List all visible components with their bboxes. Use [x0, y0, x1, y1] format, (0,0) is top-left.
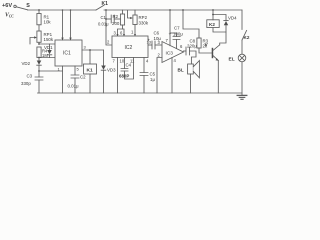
svg-text:10k: 10k [44, 20, 52, 25]
pin 5 label IC1 [77, 67, 80, 72]
wire to relay K1 [89, 50, 91, 64]
svg-text:+: + [169, 32, 172, 37]
wire rail to IC1 pin4 [62, 10, 64, 40]
pin arrow IC1 top right [69, 38, 72, 40]
svg-text:4: 4 [146, 59, 149, 64]
resistor R4 1M [37, 47, 41, 58]
IC2 box [112, 36, 148, 58]
pin 2 label [107, 40, 110, 45]
pin arrow IC2 pin1 [134, 34, 136, 36]
wire IC1 pin5 down [74, 66, 76, 75]
wire K1 to ground rail [89, 74, 91, 93]
battery terminal [14, 5, 16, 7]
svg-text:+6V: +6V [2, 3, 12, 9]
svg-text:330k: 330k [139, 21, 149, 26]
capacitor C1 0.01u [106, 18, 111, 20]
transistor V [212, 48, 214, 58]
pin 13 label [147, 40, 152, 45]
switch S [16, 7, 27, 10]
svg-text:2: 2 [107, 40, 110, 45]
potentiometer RP2 330k [134, 10, 136, 15]
wire R1 to RP1 [38, 25, 40, 31]
lamp EL [238, 54, 246, 62]
wire rail to K2 [212, 10, 214, 20]
node rail-R3 [182, 9, 184, 11]
wire top rail right [104, 9, 242, 11]
wire IC2 pin13 output [148, 44, 152, 46]
wire IC1 pin1 to ground rail [62, 66, 64, 93]
svg-text:7: 7 [166, 38, 169, 43]
wire R3 to base [199, 48, 212, 53]
svg-text:EL: EL [229, 57, 235, 63]
pin 10 label [120, 59, 125, 64]
svg-text:6: 6 [180, 44, 183, 49]
svg-text:C3: C3 [27, 74, 33, 79]
wire rail to IC3 pin7 [169, 10, 171, 46]
diode VD3 across K1 [103, 50, 105, 66]
wire IC3 pin2 to ground rail [157, 58, 162, 94]
contact K2 blade [242, 31, 247, 41]
wire rail to R1 [38, 10, 40, 14]
svg-text:10: 10 [120, 59, 125, 64]
node rail-K2 [212, 9, 214, 11]
node C junction [38, 70, 40, 72]
node rail-IC2pin2 [105, 9, 107, 11]
wire IC3 pin6 output [184, 50, 187, 52]
svg-text:3: 3 [84, 45, 87, 50]
op-amp IC3 [162, 42, 184, 63]
svg-text:330p: 330p [21, 81, 31, 86]
pin arrow IC1 top left [61, 38, 64, 40]
speaker BL [188, 64, 194, 74]
transistor emitter [213, 56, 218, 61]
svg-text:220μ: 220μ [187, 44, 197, 49]
capacitor C7 100u [170, 32, 177, 34]
resistor R3 2k [197, 38, 201, 48]
transistor collector [213, 45, 220, 51]
svg-text:BL: BL [178, 68, 184, 73]
wire contact to lamp [241, 40, 243, 54]
svg-text:C2: C2 [80, 75, 86, 80]
wire C8 to speaker [190, 51, 197, 64]
svg-text:VD4: VD4 [228, 16, 237, 21]
resistor R1 10k [37, 14, 41, 25]
svg-text:7: 7 [113, 59, 116, 64]
wire speaker to ground rail [190, 74, 192, 93]
capacitor C4 680P between pins 10 11 [124, 58, 126, 69]
node rail-C7 [169, 9, 171, 11]
ground symbol [241, 93, 243, 95]
svg-text:C6: C6 [154, 31, 160, 36]
wire emitter to ground rail [217, 60, 219, 93]
pin 6 label [180, 44, 183, 49]
svg-text:5: 5 [77, 67, 80, 72]
RP2 wiper arrow [128, 11, 131, 19]
pin 7 label [113, 59, 116, 64]
pin 4 label [174, 58, 177, 63]
svg-text:200: 200 [112, 21, 120, 26]
capacitor C2 0.01u [71, 75, 79, 78]
svg-text:150k: 150k [44, 37, 54, 42]
wire lamp to ground rail [241, 62, 243, 93]
pin 3 label [158, 40, 161, 45]
svg-text:IC3: IC3 [166, 51, 174, 57]
svg-text:K2: K2 [209, 22, 215, 27]
wire rail corner to contact K2 [241, 10, 243, 30]
op-amp-box IC1 [55, 40, 82, 66]
svg-text:+: + [148, 38, 151, 43]
wire node C to IC1 pin1 leg [39, 70, 63, 72]
relay coil K2 [207, 20, 219, 28]
svg-text:C4: C4 [126, 63, 132, 68]
relay coil K1 [84, 64, 97, 74]
wire RP2 to IC2 pin1 [134, 25, 136, 37]
svg-text:S: S [26, 3, 30, 9]
svg-text:C5: C5 [150, 72, 156, 77]
wire IC2 pin7 to ground rail [117, 58, 119, 94]
pin 2 label [158, 53, 161, 58]
ground rail bottom [38, 92, 243, 94]
capacitor C8 220u [186, 47, 190, 55]
wire R2 to pins 3 6 jumper [122, 25, 124, 29]
capacitor C5 1u [140, 73, 148, 76]
wire top rail left [28, 9, 96, 11]
svg-text:VCC: VCC [5, 13, 14, 19]
RP1 wiper arrow [30, 38, 34, 45]
wire IC2 pin4 down [143, 58, 145, 73]
potentiometer RP1 150k [37, 31, 41, 42]
svg-text:K2: K2 [244, 35, 250, 40]
capacitor C6 10u [152, 41, 155, 49]
svg-text:K1: K1 [87, 68, 93, 74]
svg-text:C7: C7 [174, 26, 180, 31]
wire rail down to IC2 pin2 [106, 10, 112, 45]
svg-text:1μ: 1μ [150, 77, 155, 82]
pin arrow IC2 pin3 [116, 34, 118, 36]
wire node A to IC1 [39, 43, 55, 45]
wire rail to IC1 pin8 [70, 10, 72, 40]
svg-text:0.01μ: 0.01μ [68, 84, 80, 89]
svg-text:IC2: IC2 [125, 45, 133, 51]
wire rail to R3 [183, 10, 199, 38]
svg-text:C1: C1 [101, 15, 107, 20]
svg-text:2: 2 [158, 53, 161, 58]
pin 3 label [114, 31, 117, 36]
power label +6V Vcc [2, 3, 14, 19]
svg-text:VD2: VD2 [22, 61, 31, 66]
svg-text:RP2: RP2 [139, 15, 148, 20]
svg-text:4: 4 [174, 58, 177, 63]
pin 1 label IC1 [58, 67, 61, 72]
pin 4 label [146, 59, 149, 64]
pin arrow IC2 pin6 [123, 34, 125, 36]
svg-text:R2: R2 [113, 14, 119, 19]
pin 3 label IC1 [84, 45, 87, 50]
resistor R2 200 [122, 10, 124, 14]
svg-text:3: 3 [114, 31, 117, 36]
pin 11 label [130, 59, 135, 64]
diode VD4 across K2 [213, 15, 226, 21]
capacitor C3 330p [38, 71, 40, 77]
wire IC1 pin3 output [82, 49, 104, 51]
diode VD1 [44, 45, 53, 50]
contact K1 blade [96, 5, 104, 10]
svg-text:6: 6 [120, 31, 123, 36]
node rail-R1 [38, 9, 40, 11]
svg-text:0.01μ: 0.01μ [98, 22, 109, 27]
pin 6 label [120, 31, 123, 36]
node A junction RP1 bottom [38, 42, 40, 44]
node rail-IC1pin8 [70, 9, 72, 11]
wire collector to K2 [213, 28, 226, 45]
svg-text:IC1: IC1 [63, 51, 71, 57]
wire IC3 pin4 to ground rail [171, 57, 173, 93]
node rail-IC1pin4 [62, 9, 64, 11]
svg-text:VD3: VD3 [107, 68, 116, 73]
svg-text:680P: 680P [119, 74, 129, 79]
svg-text:1: 1 [131, 30, 134, 35]
wire node B to IC1 [39, 57, 55, 59]
node B junction R4 bottom [38, 57, 40, 59]
svg-text:K1: K1 [102, 1, 109, 7]
diode VD2 left [22, 61, 31, 66]
pin 1 label [131, 30, 134, 35]
svg-text:100μ: 100μ [173, 32, 183, 37]
pin 7 label [166, 38, 169, 43]
